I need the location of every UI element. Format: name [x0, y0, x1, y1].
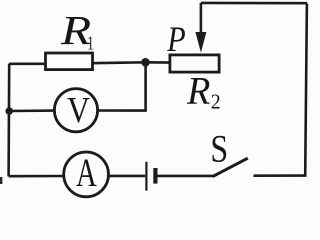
wire battery to switch [158, 175, 214, 178]
wire top row to slider arrow [201, 2, 307, 5]
wire from left rail to resistor R1 [9, 62, 48, 65]
wire left rail [7, 64, 10, 177]
node dot on left rail at voltmeter branch [5, 107, 13, 115]
svg-text:2: 2 [211, 91, 221, 114]
battery short thick plate [153, 168, 157, 184]
wire from R1 to junction node [91, 61, 146, 65]
battery long plate [145, 162, 147, 191]
wire slider arrow stem [200, 3, 203, 36]
resistor R1 [46, 53, 93, 70]
voltmeter V [54, 89, 97, 132]
scan mark at left edge bottom [0, 177, 2, 184]
wire right rail [305, 4, 307, 176]
wire from junction to rheostat R2 left terminal [146, 61, 173, 64]
ammeter A [64, 151, 109, 197]
wire junction down to voltmeter branch [144, 62, 147, 111]
wire voltmeter branch left segment [9, 109, 56, 112]
svg-text:R: R [60, 7, 91, 53]
slider arrowhead pointing at R2 [195, 32, 206, 53]
label R1 [60, 7, 94, 55]
svg-text:P: P [166, 21, 185, 60]
switch S lever [213, 158, 248, 176]
svg-text:R: R [186, 70, 210, 112]
svg-text:S: S [210, 126, 228, 170]
wire ammeter to battery [106, 175, 145, 178]
label R2 [186, 70, 221, 113]
node junction dot right of R1 [141, 58, 150, 67]
svg-text:V: V [67, 90, 90, 131]
svg-text:1: 1 [87, 32, 94, 55]
svg-text:A: A [76, 151, 97, 196]
wire switch to right rail [254, 174, 307, 177]
wire voltmeter branch right segment [96, 109, 147, 112]
rheostat R2 [170, 55, 219, 72]
wire bottom row from left rail to ammeter [9, 175, 66, 178]
